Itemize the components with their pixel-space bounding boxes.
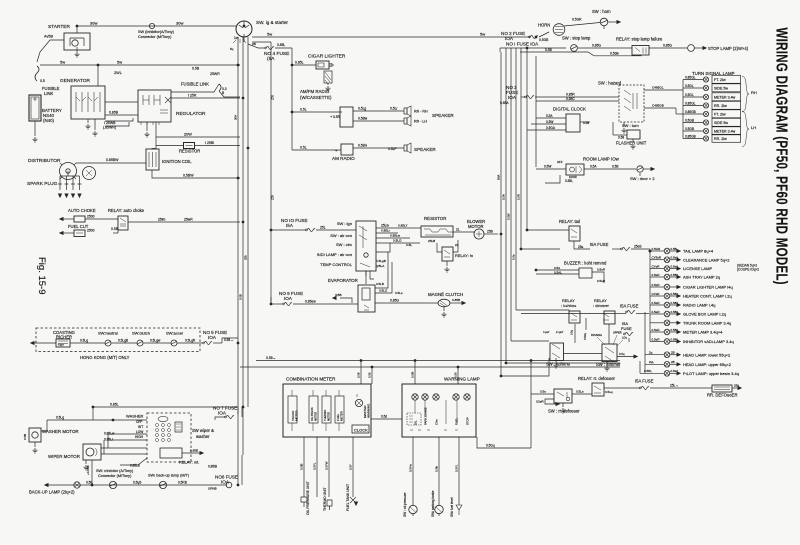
svg-text:0.85R: 0.85R [566,93,575,97]
svg-text:CıGAR LıGHTER LAMP I4ɥ: CıGAR LıGHTER LAMP I4ɥ [683,285,733,290]
svg-text:SW:neutral: SW:neutral [98,331,118,336]
AC box ground [365,271,367,276]
svg-text:PARK BRAKE: PARK BRAKE [424,407,428,425]
relay drop wires [574,324,576,343]
svg-text:0.85G: 0.85G [592,44,601,48]
svg-text:25L→: 25L→ [670,384,679,388]
meter sender wires [303,437,305,497]
thermo meter [322,396,331,423]
wires temp control to evaporator [376,242,420,244]
svg-text:SWı fuel level: SWı fuel level [450,497,454,517]
wire 5w ignition to fuse block [252,36,530,38]
svg-text:0.5BH: 0.5BH [358,144,368,148]
wires hazard to turn lamps [644,89,683,91]
master warning lamp [355,399,362,406]
rr defogger [712,385,732,392]
svg-text:2ɥ: 2ɥ [649,350,653,354]
turn lamp METER 3.4w at y131 [683,130,703,132]
svg-text:B0A: B0A [497,175,501,180]
svg-text:25I: 25I [252,42,256,46]
svg-text:SW (inhibitor(A/Tony): SW (inhibitor(A/Tony) [138,30,175,34]
tail fuse 15A [574,241,590,249]
svg-text:GRNB: GRNB [208,487,217,491]
svg-text:2B: 2B [671,360,675,364]
wiper ground wire [91,460,93,485]
svg-text:FLASHER UNIT: FLASHER UNIT [616,141,647,146]
svg-text:HORN: HORN [538,23,550,28]
svg-text:METER 3.4w: METER 3.4w [714,96,736,100]
condenser [83,167,96,180]
svg-text:RH: RH [751,90,757,95]
svg-text:5ɥ: 5ɥ [230,47,234,51]
svg-text:0.58: 0.58 [583,121,589,125]
svg-text:RESISTOR: RESISTOR [179,149,200,154]
svg-text:0.85GL: 0.85GL [685,75,696,79]
meter inner top wires [292,390,357,397]
switch lighting [550,343,564,361]
regulator tick marks [141,122,159,125]
svg-text:25ɢ: 25ɢ [578,245,584,249]
svg-text:0.5GL: 0.5GL [685,84,694,88]
svg-text:METER: METER [327,412,331,421]
svg-text:INHıBıTOR ᴠADı.LAMP 3.4ɥ: INHıBıTOR ᴠADı.LAMP 3.4ɥ [683,339,734,344]
svg-text:SW : lıɢhtınɢ: SW : lıɢhtınɢ [546,362,571,367]
svg-text:EVAPORATOR: EVAPORATOR [328,278,358,283]
wire battery feed Av5B [37,40,64,62]
no 7 fuse symbol [237,407,239,414]
wiper switch assembly dashed box [147,413,191,462]
meter feed drops [360,361,362,385]
main harness bus vertical 3 [247,37,249,407]
svg-text:HONG KONG (M/T) ONLY: HONG KONG (M/T) ONLY [80,355,130,360]
svg-text:IOA: IOA [508,95,517,100]
svg-text:0.5LB: 0.5LB [376,282,384,286]
svg-text:0.58: 0.58 [618,136,624,140]
svg-text:0.5A: 0.5A [546,114,553,118]
svg-text:FUEL: FUEL [455,417,459,425]
svg-text:HEATER CONT. LAMP I.2ɥ: HEATER CONT. LAMP I.2ɥ [683,294,732,299]
svg-text:0.5Lɡ: 0.5Lɡ [56,416,64,420]
svg-text:SWı parkıng brake: SWı parkıng brake [431,490,435,517]
svg-text:SW : circ: SW : circ [336,242,352,247]
svg-text:2B: 2B [671,350,675,354]
turn lamp RR. 2Iw at y138.5 [683,138,703,140]
svg-text:RELAY: auto choke: RELAY: auto choke [108,208,145,213]
svg-text:25ɓ: 25ɓ [734,384,739,388]
svg-text:RESISTOR: RESISTOR [424,216,446,221]
svg-text:0.85B: 0.85B [109,111,119,115]
svg-text:IOA: IOA [284,296,293,301]
A/C control assembly box [356,221,376,271]
svg-text:WIPER MOTOR: WIPER MOTOR [48,454,80,459]
clock [352,425,369,433]
evaporator bottom contact [364,305,369,310]
fuel meter [335,396,344,423]
svg-text:2 ɥaУ: 2 ɥaУ [556,330,563,334]
svg-text:0.5AL: 0.5AL [554,270,562,274]
svg-text:0.5GB: 0.5GB [685,127,694,131]
accessory feed vertical 25I [270,42,272,304]
svg-text:0.5YL: 0.5YL [313,462,317,470]
svg-text:25lm: 25lm [158,218,166,222]
svg-text:0.5ɢR: 0.5ɢR [652,337,661,341]
svg-text:0.5GL: 0.5GL [685,93,694,97]
turn lamp FT. 2Iw at y79.5 [683,79,703,81]
svg-text:0.85Lw: 0.85Lw [104,432,115,436]
svg-text:25ɢB: 25ɢB [634,245,641,249]
svg-text:SIDE 5w: SIDE 5w [714,87,728,91]
svg-text:OIL PRESS: OIL PRESS [310,407,314,421]
switch link wires [563,353,602,355]
svg-text:OFF: OFF [136,420,142,424]
svg-text:SW : horn: SW : horn [592,9,611,14]
turn lamp bus vertical [682,80,684,139]
pilot lamp upper beam [640,372,664,374]
am radio [341,144,353,155]
head lamp upper [645,363,664,365]
svg-text:0.5B: 0.5B [612,165,619,169]
svg-text:I ɥaУ: I ɥaУ [543,330,550,334]
ignition switch SW ig & starter [236,21,252,37]
svg-text:THERMO: THERMO [323,410,327,421]
svg-text:0.58→: 0.58→ [224,338,233,342]
warning box bottom ticks [410,429,458,431]
washer feed wire [92,407,94,420]
svg-text:25I: 25I [271,195,275,200]
resistor ignition [184,143,195,149]
svg-text:0.5R: 0.5R [333,115,341,119]
svg-text:WIRING DIAGRAM (PF50, PF60 RH: WIRING DIAGRAM (PF50, PF60 RHD MODEL) [773,28,791,285]
svg-text:0.58→: 0.58→ [266,356,276,360]
svg-text:0.5ɥ: 0.5ɥ [619,352,625,356]
svg-text:(N40): (N40) [43,118,55,123]
svg-text:FT. 2Iw: FT. 2Iw [714,113,726,117]
speaker RR-RH [404,108,407,114]
svg-text:SW : rr. defoɢɢer: SW : rr. defoɢɢer [548,409,580,414]
svg-text:0.5ɢR: 0.5ɢR [652,301,661,305]
svg-text:U3ɢR: U3ɢR [536,400,545,404]
lamp row HEATER CONT. LAMP [650,295,664,297]
svg-text:0.5LɡR: 0.5LɡR [185,339,196,343]
generator ground lower [94,119,96,130]
svg-text:0.85L: 0.85L [110,403,119,407]
svg-text:METER: METER [340,411,344,421]
svg-text:0.5ɢR: 0.5ɢR [652,328,661,332]
wire 0.5BL room return [545,175,560,183]
fuse block feed verticals [500,52,502,376]
wiper motor ground [85,460,87,464]
svg-text:0.85GL: 0.85GL [685,101,696,105]
svg-text:0.5Lɡ: 0.5Lɡ [80,339,88,343]
svg-text:0.5Gɥ: 0.5Gɥ [486,444,495,448]
svg-text:0.5W: 0.5W [544,165,551,169]
svg-text:0.5RB: 0.5RB [178,481,187,485]
svg-text:Connector (M/Tony): Connector (M/Tony) [138,35,172,39]
svg-text:0.5dw: 0.5dw [610,51,619,55]
cigar lighter tab [329,64,334,66]
svg-text:SIDE 5w: SIDE 5w [714,121,728,125]
stop wire from warning box [477,437,531,448]
svg-text:SW : turn: SW : turn [622,123,639,128]
svg-text:WARNING: WARNING [367,403,371,418]
meter to warning wire [371,418,402,420]
wire 30w starter to ignition switch [77,25,236,27]
svg-text:LH: LH [751,125,756,130]
lamp row TRUNK ROOM LAMP [650,322,664,324]
main harness bus vertical 2 [242,37,244,455]
svg-text:0.5B: 0.5B [23,434,27,440]
svg-text:RELAY: taıl: RELAY: taıl [559,219,580,224]
svg-text:0.85G: 0.85G [390,299,399,303]
svg-text:IOA: IOA [208,335,217,340]
svg-text:TRUNK ROOM LAMP 3.4ɥ: TRUNK ROOM LAMP 3.4ɥ [683,320,731,325]
svg-text:Av5B: Av5B [44,35,53,39]
ignition bundle top ticks [233,39,246,43]
speaker RR-LH [404,118,407,124]
svg-text:RELAY: hı: RELAY: hı [455,253,473,258]
svg-text:0.5: 0.5 [40,79,45,83]
turn lamp RR. 2Iw at y105.5 [683,105,703,107]
svg-text:PASSıNG: PASSıNG [591,334,602,337]
svg-text:Connector (M/Tony): Connector (M/Tony) [98,474,132,478]
svg-text:30w: 30w [176,21,183,26]
lamp row INHıBıTOR ᴠADı.LA [650,341,664,343]
RH LH group brackets [742,76,749,112]
wires control to resistor [376,227,421,229]
svg-text:0.5LP: 0.5LP [388,147,397,151]
svg-text:STOP LAMP (2)W×4): STOP LAMP (2)W×4) [708,46,749,51]
svg-text:ASH TRAY LAMP 2ɥ: ASH TRAY LAMP 2ɥ [683,275,720,280]
svg-text:0.5B: 0.5B [671,247,677,251]
svg-text:DIGITAL CLOCK: DIGITAL CLOCK [553,107,586,112]
svg-text:2500: 2500 [87,229,95,233]
svg-text:SW : air con: SW : air con [330,233,352,238]
svg-text:0.5LO: 0.5LO [393,239,402,243]
svg-text:METER 3.4w: METER 3.4w [714,130,736,134]
svg-text:25LB: 25LB [428,239,435,243]
flasher unit [627,130,640,139]
svg-text:NO I FUSE IOA: NO I FUSE IOA [506,42,539,47]
svg-text:0.58L: 0.58L [565,179,573,183]
svg-text:STARTER: STARTER [48,24,70,30]
svg-text:SW:clutch: SW:clutch [132,331,150,336]
lamp row LICENSE LAMP [650,268,664,270]
stop lamp connector [688,45,695,52]
head lamp lower [645,354,664,356]
svg-text:0.5GA: 0.5GA [546,126,556,130]
svg-text:SWı back-up lamp (M/T): SWı back-up lamp (M/T) [148,474,190,478]
svg-text:I5A FUSE: I5A FUSE [590,242,609,247]
svg-text:INDI LAMP : air con: INDI LAMP : air con [317,252,352,257]
svg-text:REGULATOR: REGULATOR [176,111,206,117]
bus turns lower [501,358,549,376]
svg-text:0.5GB: 0.5GB [685,118,694,122]
svg-text:0.5B: 0.5B [111,227,119,231]
svg-text:0.85ɢw: 0.85ɢw [305,300,316,304]
svg-text:WASHER MOTOR: WASHER MOTOR [42,429,79,434]
hazard box grounds [623,122,625,127]
svg-text:Fig. 15-9: Fig. 15-9 [36,257,47,295]
turn lamp METER 3.4w at y97 [683,96,703,98]
svg-text:: lıɢhtınɢ: : lıɢhtınɢ [561,303,576,308]
svg-text:0.5Y: 0.5Y [349,464,353,470]
svg-text:C485GB: C485GB [652,104,664,108]
svg-text:AM RADIO: AM RADIO [332,156,355,161]
lamp row CLEARANCE LAMP [650,259,664,261]
svg-text:0.85L: 0.85L [277,43,285,47]
svg-text:30A: 30A [234,115,238,120]
room lamp sw door ground [639,173,641,176]
svg-text:0.85GB: 0.85GB [685,110,696,114]
svg-text:TAIL LAMP 8ɥ×4: TAIL LAMP 8ɥ×4 [683,249,714,254]
svg-text:0.5d: 0.5d [381,415,387,419]
svg-text:0.5GR: 0.5GR [572,18,582,22]
svg-text:RELAY: rr. defoɢɢer: RELAY: rr. defoɢɢer [578,376,616,381]
svg-text:0.85GB: 0.85GB [685,134,696,138]
svg-text:NO IO FUSE: NO IO FUSE [281,218,308,223]
svg-text:0.5A: 0.5A [590,165,597,169]
svg-text:SPEAKER: SPEAKER [414,147,436,152]
bus vertical 536 clock-room feed [535,56,537,167]
svg-text:SW: ınhıbıtor (A/Tony): SW: ınhıbıtor (A/Tony) [96,469,134,473]
svg-text:0.5B: 0.5B [192,67,200,71]
svg-text:2L: 2L [455,243,459,247]
hazard feed wires [536,100,619,102]
svg-text:0.5Yw: 0.5Yw [409,463,413,472]
svg-text:(COUPE IOɥ×2: (COUPE IOɥ×2 [737,268,759,272]
connector SW inhibitor on 30w wire [149,23,154,28]
svg-text:OFF: OFF [557,160,563,164]
svg-text:0.5Lɢ: 0.5Lɢ [576,390,584,394]
svg-text:25wR: 25wR [184,218,193,222]
svg-text:CLEARANCE LAMP 5ɥ×2: CLEARANCE LAMP 5ɥ×2 [683,257,730,262]
lamp list bus vertical [649,251,651,342]
svg-text:GENERATOR: GENERATOR [60,78,90,84]
svg-text:0.85G: 0.85G [663,44,672,48]
svg-text:CLOCK: CLOCK [354,428,368,433]
svg-text:0.5ɢR: 0.5ɢR [652,283,661,287]
svg-text:RR. DEFOɢɢER: RR. DEFOɢɢER [707,393,738,398]
svg-text:5w: 5w [117,60,122,65]
svg-text:I 25BI: I 25BI [205,141,214,145]
svg-text:SW:accel: SW:accel [166,331,183,336]
svg-text:FT. 2Iw: FT. 2Iw [714,78,726,82]
svg-text:IGNITION COIL: IGNITION COIL [162,159,192,164]
svg-text:0.85Lr: 0.85Lr [104,438,114,442]
svg-text:5w: 5w [480,32,485,37]
svg-text:0.5GR: 0.5GR [652,247,662,251]
svg-text:0.5ɢɥ: 0.5ɢɥ [605,390,613,394]
turn lamp SIDE 5w at y122.5 [683,122,703,124]
svg-text:INT: INT [138,425,143,429]
relay intermittent [160,448,182,458]
svg-text:(5A: (5A [267,56,275,62]
svg-text:0.5lB: 0.5lB [300,463,304,470]
lamp row GLOVE BOX LAMP [650,313,664,315]
svg-text:WARNING LAMP: WARNING LAMP [444,377,480,382]
svg-text:OIL: OIL [414,420,418,425]
switch dimmer [602,344,617,362]
svg-text:0.5ɢR: 0.5ɢR [597,279,606,283]
svg-text:LICENSE LAMP: LICENSE LAMP [683,266,712,271]
svg-text:RR. 2Iw: RR. 2Iw [714,104,727,108]
svg-text:0.5ɢR: 0.5ɢR [597,268,606,272]
TRY solenoid [56,339,70,347]
combination meter inner bottom wires [292,423,339,431]
svg-text:0.5Lg: 0.5Lg [358,107,366,111]
svg-text:0.85C: 0.85C [566,97,575,101]
no 10 fuse 15A wire [271,229,306,231]
svg-text:I 25WB: I 25WB [104,121,116,125]
svg-text:0.85Lɓ: 0.85Lɓ [130,464,140,468]
svg-text:STOP: STOP [466,417,470,425]
lamp row ASH TRAY LAMP [650,276,664,278]
turn lamp SIDE 5w at y88 [683,87,703,89]
svg-text:I5A: I5A [286,223,294,228]
main feed wire lower 0.5B [256,360,620,362]
ignition feed wire down [243,37,245,42]
svg-text:30w: 30w [90,21,97,26]
accessory vertical from fuse 4 [291,48,293,150]
svg-text:SPEAKER: SPEAKER [432,113,454,118]
svg-text:0.5L: 0.5L [406,243,412,247]
svg-text:LOɥ: LOɥ [622,337,627,340]
svg-text:METER LAMP 3.4ɥ×4: METER LAMP 3.4ɥ×4 [683,330,723,335]
svg-text:0.5LO: 0.5LO [379,289,388,293]
svg-text:CУ5ɢR: CУ5ɢR [652,256,662,260]
svg-text:25WR: 25WR [210,72,220,76]
svg-text:(W/CASSETTE): (W/CASSETTE) [300,95,332,100]
svg-text:RELAY: ınt.: RELAY: ınt. [179,460,199,465]
svg-text:0.5L: 0.5L [300,146,307,150]
svg-text:CHɢ: CHɢ [435,419,439,425]
warning lamps [412,394,418,400]
svg-text:I5A FUSE: I5A FUSE [635,379,654,384]
svg-text:0.5Lɢ: 0.5Lɢ [395,291,403,295]
svg-text:0.5B: 0.5B [545,48,553,52]
svg-text:0.85B: 0.85B [190,449,198,453]
svg-text:SPARK PLUG: SPARK PLUG [27,181,58,187]
junction dots bus taps [237,64,239,66]
svg-text:ROOM LAMP IOw: ROOM LAMP IOw [583,157,620,162]
oil press meter [309,396,318,423]
svg-text:5w: 5w [267,32,272,37]
svg-text:SW : door × 2: SW : door × 2 [630,176,655,181]
svg-text:0.5YW: 0.5YW [325,461,329,470]
svg-text:0.85Lw: 0.85Lw [390,234,401,238]
wire distributor to coil 0.85BW [76,162,146,164]
svg-text:0.58: 0.58 [357,372,361,378]
svg-text:(25LA: (25LA [376,264,385,268]
svg-text:HEAD LAMP: upper 65ɥ×2: HEAD LAMP: upper 65ɥ×2 [683,362,732,367]
svg-text:2ɥL: 2ɥL [649,360,654,364]
svg-text:0.5LɡB: 0.5LɡB [118,339,128,343]
svg-text:METER: METER [314,412,318,421]
battery NS40 [29,95,41,121]
svg-text:C485GL: C485GL [652,86,664,90]
turn lamp FT. 2Iw at y114 [683,113,703,115]
warning lamp inner wires [415,400,457,424]
svg-text:0.56: 0.56 [368,372,372,378]
svg-text:0.5R: 0.5R [517,194,521,200]
svg-text:GLOVE BOX LAMP I.2ɥ: GLOVE BOX LAMP I.2ɥ [683,312,726,317]
svg-text:SW : oıl pressure: SW : oıl pressure [403,492,407,517]
svg-text:0.5ɥ: 0.5ɥ [570,329,574,335]
svg-text:RELAY: stop lamp failure: RELAY: stop lamp failure [616,37,663,42]
svg-text:B: B [222,91,225,95]
svg-text:0.5lb: 0.5lb [435,465,439,472]
junction dots top [97,64,99,66]
